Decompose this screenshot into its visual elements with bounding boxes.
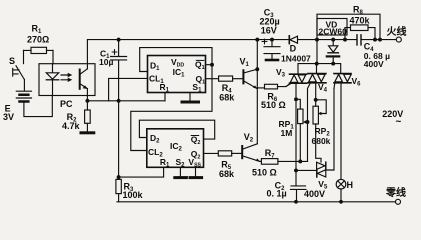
node C1 bottom: [117, 99, 121, 103]
resistor R7: [261, 159, 307, 165]
wire Q2 to R5: [204, 152, 219, 154]
wire Q1 to R4: [206, 78, 219, 80]
node emitter junction: [85, 99, 89, 103]
transistor V2: [242, 144, 260, 162]
node RP1 wiper join: [306, 120, 310, 124]
svg-text:680k: 680k: [312, 136, 331, 146]
svg-text:零线: 零线: [385, 186, 406, 199]
triac V6: [334, 74, 351, 180]
phototransistor in PC: [80, 69, 88, 89]
resistor R2: [85, 101, 91, 133]
wire CL1 to net A: [109, 78, 148, 100]
node V3 bottom RP1 tap: [294, 97, 298, 101]
potentiometer RP2: [313, 100, 326, 124]
svg-text:S: S: [9, 56, 15, 66]
capacitor C4: [357, 35, 361, 45]
wire IC2 feedback loop Q2bar to D2: [139, 120, 214, 139]
wire V1 axis vertical: [256, 40, 258, 144]
node R8 right: [373, 38, 377, 42]
wire Q1bar down to IC2 CL2: [131, 65, 212, 151]
wire V2 emitter to R7: [260, 160, 262, 162]
node R3 top: [117, 175, 121, 179]
terminal live: [396, 37, 401, 42]
ground S2: [175, 176, 187, 179]
diac V5: [317, 162, 326, 177]
wire IC2 R1 pin: [120, 167, 164, 177]
svg-text:4.7k: 4.7k: [62, 121, 81, 131]
transistor V1: [243, 69, 257, 89]
node second rail V4: [315, 62, 319, 66]
wire VSS ground: [195, 167, 197, 177]
potentiometer RP1: [298, 109, 308, 161]
resistor R1: [24, 47, 54, 53]
node bypass rail crossing: [315, 38, 319, 42]
wire R1 left down to switch: [23, 50, 25, 63]
wire emitter down to node: [86, 89, 88, 101]
node rail zener: [331, 38, 335, 42]
node rail V1: [255, 38, 259, 42]
svg-text:470k: 470k: [350, 15, 371, 25]
resistor R5: [218, 151, 241, 156]
node rail C1: [117, 38, 121, 42]
svg-text:1M: 1M: [281, 128, 293, 138]
capacitor C2: [291, 99, 307, 202]
lamp H: [336, 179, 346, 201]
svg-text:H: H: [347, 180, 354, 190]
wire R7 up to V4 gate: [308, 84, 310, 161]
wire switch to battery: [23, 80, 25, 91]
svg-text:D: D: [290, 44, 297, 54]
IC2 box: [147, 129, 204, 168]
node V1 collector: [255, 67, 259, 71]
box VD label: [317, 19, 347, 36]
svg-text:270Ω: 270Ω: [27, 35, 49, 45]
triac V3: [286, 74, 307, 99]
svg-text:16V: 16V: [261, 25, 277, 35]
svg-text:1N4007: 1N4007: [281, 53, 311, 63]
svg-text:PC: PC: [60, 99, 73, 109]
wire RP2 bottom to diac: [316, 124, 321, 162]
wire second rail (triac tops): [298, 64, 341, 74]
svg-text:3V: 3V: [3, 112, 14, 122]
wire top bypass loop: [317, 14, 380, 63]
triac V4: [308, 64, 326, 100]
svg-text:400V: 400V: [364, 59, 384, 69]
wire diac to V6 gate: [326, 89, 334, 171]
ground C3: [266, 59, 278, 62]
svg-text:0. 1µ: 0. 1µ: [267, 188, 287, 198]
node diac wire: [294, 168, 298, 172]
wire S1 to ground: [189, 93, 191, 102]
ground S1: [182, 101, 199, 104]
resistor R6: [265, 83, 292, 89]
resistor R3: [116, 179, 121, 201]
LED inside PC: [46, 64, 58, 96]
svg-text:510 Ω: 510 Ω: [252, 167, 277, 177]
svg-text:68k: 68k: [219, 169, 235, 179]
wire RP1 top tap: [296, 99, 300, 109]
wire net A horizontal: [87, 100, 165, 102]
ground below R2: [81, 131, 94, 134]
resistor R8 with loop: [345, 25, 375, 40]
wire R6 from V1 emitter: [257, 87, 264, 89]
wire collector up to rail: [86, 40, 88, 69]
svg-text:10µ: 10µ: [99, 57, 113, 67]
battery E: [16, 91, 31, 101]
node loop right rail: [378, 38, 382, 42]
node rail C3: [270, 38, 274, 42]
svg-text:2CW60: 2CW60: [319, 26, 348, 36]
svg-text:68k: 68k: [219, 92, 235, 102]
wire diac to C2 node: [296, 169, 317, 171]
node R8 left: [343, 38, 347, 42]
wire bottom rail (neutral): [117, 201, 396, 203]
svg-text:~: ~: [396, 117, 402, 128]
node lamp rail: [339, 200, 343, 204]
wire IC1 feedback loop Q1bar to D1: [140, 48, 212, 72]
wire battery to LED cathode: [24, 96, 52, 117]
svg-text:510 Ω: 510 Ω: [261, 100, 286, 110]
wire IC1 R1 pin to net A: [164, 93, 166, 101]
diode D 1N4007 on rail: [289, 36, 297, 44]
svg-text:400V: 400V: [304, 189, 325, 199]
wire S2 ground: [179, 167, 181, 177]
optocoupler PC box: [39, 64, 95, 96]
terminal neutral: [396, 199, 401, 204]
node RP1 bottom join R7: [298, 159, 302, 163]
capacitor C3: [262, 39, 280, 59]
node V4 bottom RP2 tap: [314, 98, 318, 102]
zener VD: [327, 40, 339, 64]
wire top rail: [88, 39, 397, 41]
wire C1 down to R3: [118, 101, 120, 177]
svg-text:100k: 100k: [123, 190, 144, 200]
light arrows: [61, 73, 72, 82]
resistor R4: [219, 76, 243, 81]
node Q1bar: [210, 63, 214, 67]
capacitor C1: [111, 40, 127, 101]
node second rail zener: [331, 62, 335, 66]
ground VSS: [190, 176, 202, 179]
switch S: [13, 66, 25, 80]
node C2 bottom rail: [294, 200, 298, 204]
IC1 box: [148, 56, 206, 93]
svg-text:火线: 火线: [387, 25, 407, 38]
wire R1 right down to LED anode: [52, 50, 54, 63]
